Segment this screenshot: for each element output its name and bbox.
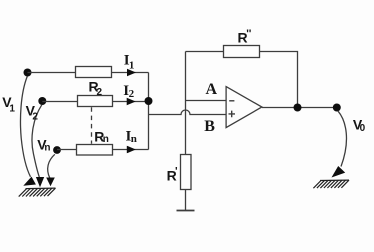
- ground left (hatched): [19, 188, 56, 197]
- wire bus to opamp + input, hop over feedback wire: [149, 110, 227, 115]
- resistor Rn: [77, 145, 113, 156]
- V0 arrowhead: [332, 166, 346, 178]
- svg-text:2: 2: [32, 111, 38, 122]
- resistor R1: [76, 67, 112, 78]
- svg-text:n: n: [44, 142, 50, 153]
- wire R' to ground: [185, 190, 187, 211]
- V1 arrowhead: [23, 177, 36, 186]
- minus sign: [229, 100, 234, 102]
- V2 measurement curve: [32, 105, 42, 177]
- resistor R'': [224, 46, 260, 58]
- node V1 input dot: [24, 69, 32, 77]
- V2 arrowhead: [36, 177, 44, 187]
- svg-text:'': '': [246, 28, 252, 40]
- svg-text:1: 1: [9, 103, 15, 114]
- resistor R': [181, 155, 192, 190]
- node Vn input dot: [53, 146, 61, 154]
- wire R2 to summing node: [113, 101, 149, 103]
- svg-text:0: 0: [360, 123, 366, 134]
- Vn arrowhead: [46, 178, 55, 187]
- output terminal dot: [333, 104, 341, 112]
- wire dot1 to R1: [28, 72, 76, 74]
- svg-text:A: A: [206, 81, 218, 98]
- wire Rn to bus: [113, 149, 149, 151]
- current arrow In: [127, 146, 136, 154]
- svg-text:2: 2: [97, 87, 103, 98]
- wire dot2 to R2: [42, 101, 77, 103]
- wire R'' left: [186, 51, 224, 53]
- svg-text:n: n: [103, 134, 109, 145]
- output node dot: [294, 104, 302, 112]
- wire node A to opamp - input: [186, 100, 227, 102]
- svg-text:n: n: [131, 133, 137, 145]
- ground right (hatched): [313, 180, 349, 188]
- ground bar under R': [177, 210, 195, 212]
- feedback vertical wire: [185, 52, 187, 155]
- V1 measurement curve: [20, 76, 30, 177]
- svg-text:B: B: [204, 118, 215, 135]
- wire dot3 to Rn: [57, 149, 77, 151]
- plus sign: [229, 111, 236, 118]
- resistor R2: [78, 96, 113, 107]
- svg-text:1: 1: [129, 59, 135, 71]
- wire R1 to bus: [112, 72, 149, 74]
- node V2 input dot: [38, 97, 46, 105]
- op-amp U1: [226, 87, 262, 128]
- output wire: [262, 107, 337, 109]
- wire R'' right down to output node: [260, 52, 298, 108]
- Vn measurement curve: [48, 154, 55, 178]
- summing bus vertical wire: [148, 73, 150, 150]
- current arrow I2: [127, 98, 136, 106]
- current arrow I1: [127, 69, 136, 77]
- svg-text:': ': [175, 166, 178, 178]
- V0 measurement curve: [338, 111, 347, 167]
- svg-text:2: 2: [129, 88, 135, 100]
- summing junction dot: [145, 97, 153, 105]
- dashed continuation line: [91, 107, 93, 144]
